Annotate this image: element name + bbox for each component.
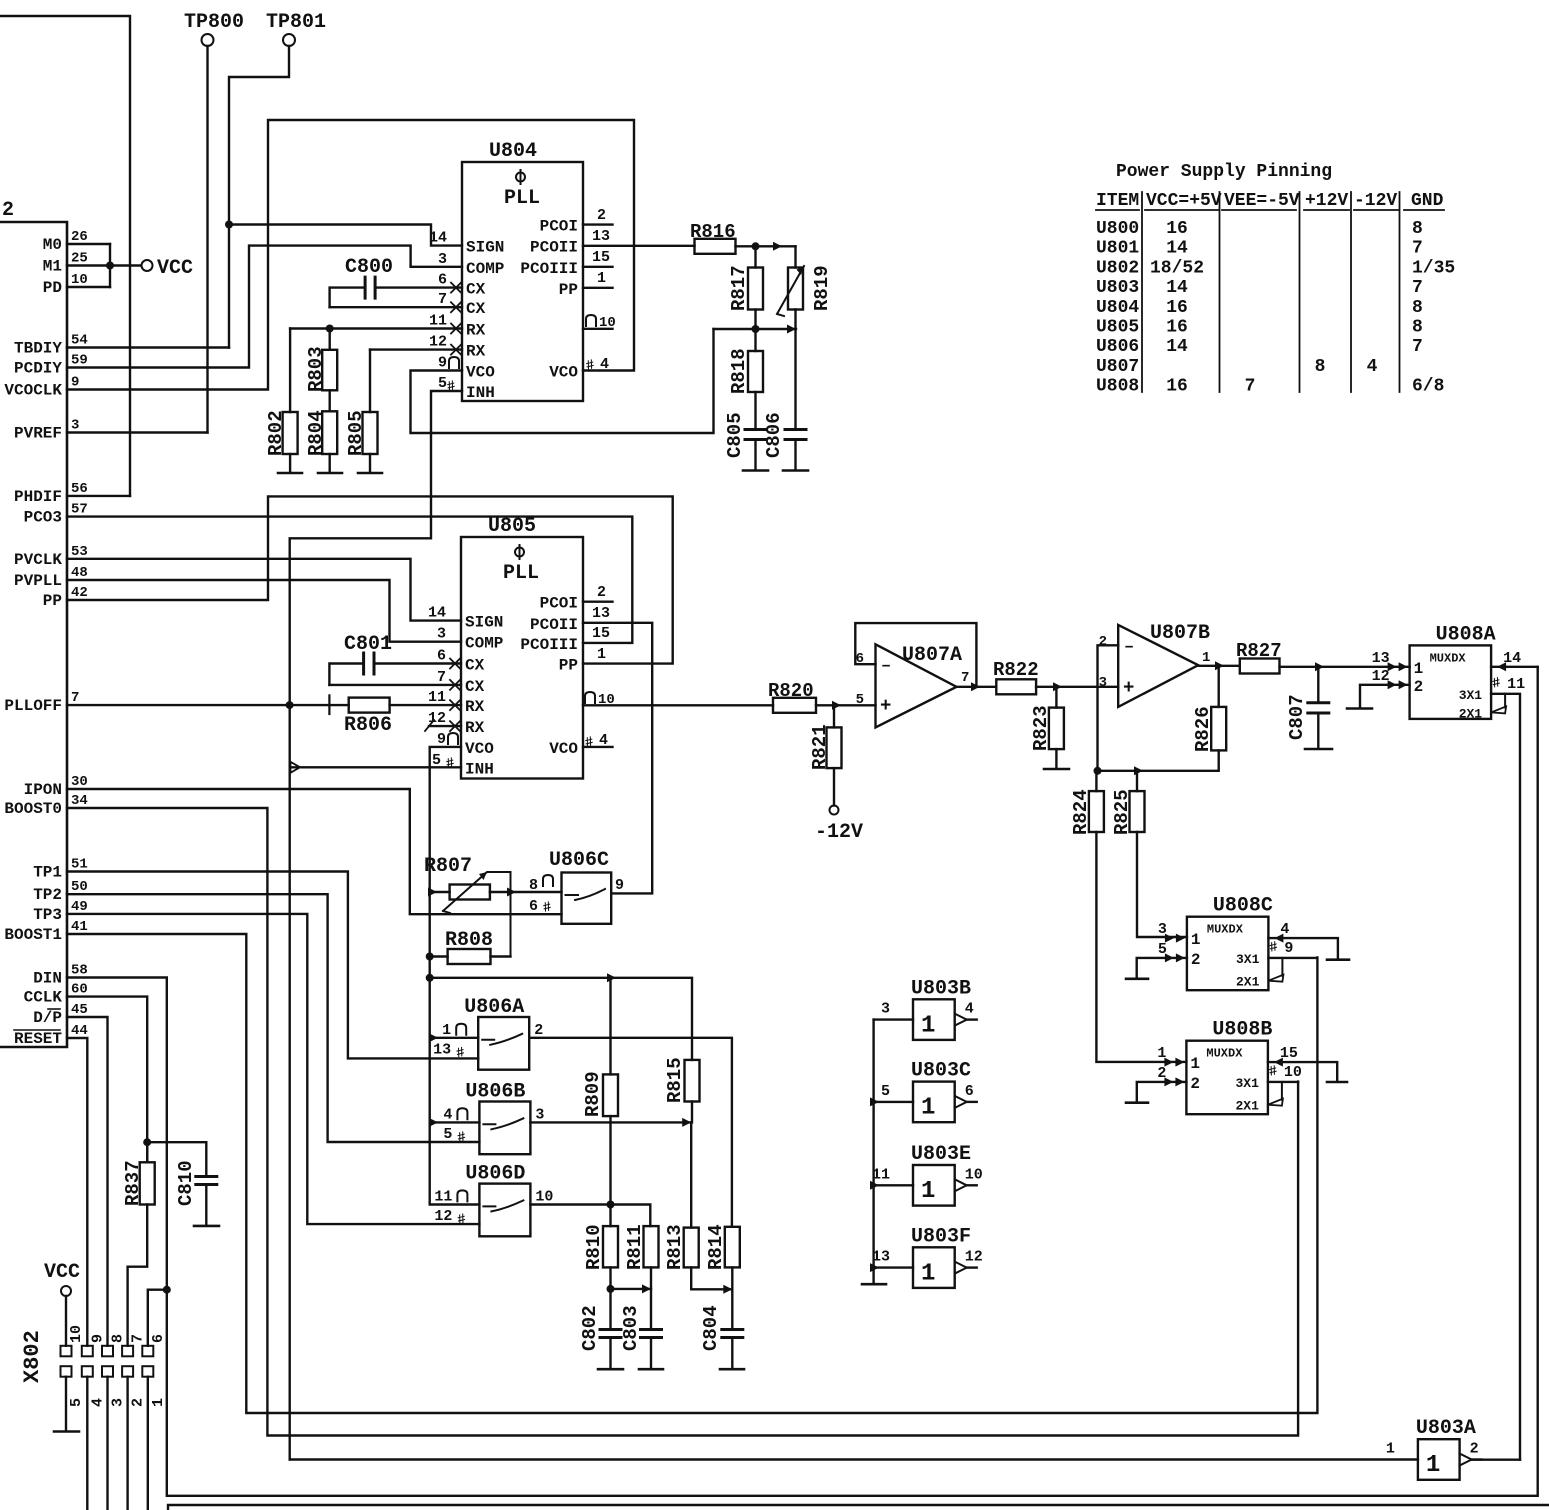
svg-text:1: 1 [597, 270, 606, 287]
wire PHDIF pin 56 [67, 495, 130, 497]
wire R806 to U805 RX11 [390, 704, 461, 706]
svg-text:9: 9 [438, 355, 447, 372]
svg-text:R822: R822 [993, 659, 1039, 681]
svg-text:C810: C810 [175, 1160, 197, 1206]
svg-text:C802: C802 [579, 1305, 601, 1351]
resistor R810 [603, 1226, 618, 1267]
wire U803 input bus [872, 1020, 874, 1283]
junction R811/C803 [642, 1284, 651, 1293]
junction U806B pin4/VCO net [429, 1118, 438, 1127]
wire U805 INH5 entry [290, 766, 461, 768]
ground R805 [358, 472, 382, 475]
svg-text:53: 53 [71, 544, 88, 560]
stub U804 PCOIII15 [583, 266, 613, 268]
svg-text:1: 1 [442, 1022, 451, 1039]
wire R824 top lead [1095, 771, 1097, 791]
U803F output arrow [955, 1262, 967, 1274]
ground R802 [278, 472, 302, 475]
svg-text:IPON: IPON [24, 781, 62, 799]
capacitor C805 [745, 430, 766, 440]
svg-text:59: 59 [71, 353, 88, 369]
svg-text:U803F: U803F [911, 1225, 971, 1248]
svg-text:4: 4 [965, 1001, 974, 1018]
svg-text:13: 13 [433, 1042, 451, 1059]
wire X802 pin1 down [147, 1377, 149, 1510]
wire R803 top lead [329, 329, 331, 350]
svg-text:PD: PD [43, 279, 62, 297]
svg-text:COMP: COMP [466, 260, 504, 278]
wire U806A pin2 to R814 [529, 1038, 732, 1227]
svg-text:1: 1 [1190, 1055, 1200, 1073]
wire R827 to U808A pin1 [1280, 666, 1410, 668]
X802 pin 6 square [142, 1346, 153, 1357]
svg-text:11: 11 [1507, 676, 1525, 693]
svg-text:#: # [445, 378, 457, 396]
U803A output arrow [1460, 1454, 1472, 1466]
svg-text:R820: R820 [768, 680, 814, 702]
wire U808B 3X1 out [1268, 1081, 1298, 1083]
wire R817 top lead [754, 246, 756, 267]
svg-text:7: 7 [437, 669, 446, 686]
wire R805 gnd lead [369, 454, 371, 473]
gate U803B box [913, 999, 955, 1040]
svg-text:M0: M0 [43, 236, 62, 254]
svg-text:PP: PP [559, 281, 578, 299]
svg-text:R819: R819 [811, 265, 833, 311]
wire U803F output stub [967, 1266, 977, 1268]
U805 pin x-mark [450, 721, 460, 731]
U808B pin1 input arrows [1175, 1058, 1184, 1067]
wire PCDIY to U804 COMP [67, 246, 462, 368]
U804 pin x-mark [451, 324, 461, 334]
U806A n-symbol [456, 1024, 466, 1035]
svg-text:1: 1 [1414, 660, 1424, 678]
svg-text:#: # [456, 1129, 468, 1147]
svg-text:U803E: U803E [911, 1143, 971, 1166]
wire R810 top lead [609, 1205, 611, 1227]
svg-text:49: 49 [71, 899, 88, 915]
wire R805 top lead [369, 350, 371, 412]
svg-text:1: 1 [921, 1178, 935, 1205]
wire R813 top lead [690, 1122, 692, 1227]
svg-text:45: 45 [71, 1002, 88, 1018]
svg-text:7: 7 [71, 690, 79, 706]
svg-text:U803B: U803B [911, 977, 971, 1000]
wire U806B pin3 to R815/R813 [530, 1121, 691, 1123]
svg-text:R810: R810 [583, 1224, 605, 1270]
junction R807 left [428, 888, 437, 897]
svg-text:CX: CX [465, 678, 485, 696]
X802 pin 7 square [122, 1346, 133, 1357]
resistor R826 [1211, 707, 1226, 751]
stub U804 pin10 [583, 328, 613, 330]
svg-text:+12V: +12V [1305, 191, 1348, 211]
svg-text:ITEM: ITEM [1096, 191, 1139, 211]
svg-text:2: 2 [1470, 1441, 1479, 1458]
svg-text:PLLOFF: PLLOFF [4, 697, 62, 715]
U808C right pin arrow [1274, 934, 1283, 943]
capacitor C806 [785, 430, 806, 440]
wire C806 gnd lead [794, 440, 796, 471]
wire PVCLK to U805 SIGN [67, 559, 461, 621]
svg-text:U808: U808 [1096, 377, 1139, 397]
resistor R813 [684, 1228, 699, 1268]
svg-text:5: 5 [881, 1083, 890, 1100]
junction R803/RX11 [326, 325, 334, 333]
wire C801 left bracket [329, 664, 363, 685]
resistor R809 [603, 1074, 618, 1116]
U806D n-symbol [457, 1190, 467, 1201]
svg-text:U803C: U803C [911, 1060, 971, 1083]
mux U808A box [1410, 645, 1492, 719]
wire U805 CX7 [329, 684, 461, 686]
wire VCC to X802 pin10 [65, 1296, 67, 1346]
resistor R827 [1240, 659, 1280, 674]
U803E output arrow [955, 1179, 967, 1191]
wire U803E output stub [967, 1184, 977, 1186]
wire VCOCLK to U804 VCO4 [67, 120, 634, 390]
svg-text:-12V: -12V [1354, 191, 1397, 211]
wire U804 CX6 [375, 286, 462, 288]
junction arrow R819 bottom [787, 325, 796, 334]
wire PD pin 10 [67, 286, 110, 288]
junction fb/R824 [1094, 767, 1102, 775]
svg-text:PLL: PLL [504, 187, 540, 210]
svg-text:14: 14 [1166, 278, 1188, 298]
wire C803 gnd lead [650, 1338, 652, 1369]
svg-text:5: 5 [68, 1398, 85, 1407]
wire R804 gnd lead [329, 454, 331, 473]
svg-text:R824: R824 [1070, 789, 1092, 835]
X802 pin 1 square [142, 1366, 153, 1377]
wire U804 PCOII13 to R816 [583, 245, 695, 247]
svg-text:7: 7 [438, 291, 447, 308]
svg-text:2: 2 [1190, 1075, 1200, 1093]
resistor R824 [1089, 791, 1104, 832]
junction node/VCO9 vert [426, 974, 434, 982]
svg-text:U804: U804 [1096, 298, 1139, 318]
node wire VCO9-net to R815 [430, 978, 692, 1060]
svg-text:7: 7 [1412, 239, 1423, 259]
svg-text:2: 2 [597, 584, 606, 601]
wire M0 pin 26 [67, 243, 110, 245]
svg-text:3: 3 [1099, 675, 1107, 691]
resistor R818 [748, 351, 763, 392]
resistor R823 [1049, 708, 1064, 750]
svg-text:PP: PP [559, 657, 578, 675]
wire M1 pin 25 [67, 264, 141, 266]
svg-text:R806: R806 [344, 714, 392, 737]
wire X802 pin5 gnd [65, 1377, 67, 1431]
R819 wiper arrow [777, 266, 804, 316]
svg-text:CX: CX [466, 300, 486, 318]
junction bus/U803C [870, 1097, 879, 1106]
svg-text:1: 1 [1191, 931, 1201, 949]
svg-text:3: 3 [437, 626, 446, 643]
svg-text:VCO: VCO [549, 364, 578, 382]
ground U808A pin2 [1347, 707, 1372, 710]
stub U804 PP1 [583, 287, 613, 289]
svg-text:9: 9 [437, 731, 446, 748]
svg-text:Power Supply Pinning: Power Supply Pinning [1116, 162, 1332, 182]
svg-text:TP800: TP800 [184, 11, 244, 34]
svg-text:3X1: 3X1 [1236, 952, 1260, 967]
svg-text:U808B: U808B [1212, 1019, 1272, 1042]
svg-text:R825: R825 [1111, 789, 1133, 835]
svg-text:R807: R807 [424, 855, 472, 878]
svg-text:RX: RX [465, 698, 485, 716]
svg-text:1: 1 [150, 1398, 167, 1407]
capacitor C810 [196, 1177, 217, 1185]
resistor R817 [748, 268, 763, 310]
svg-text:–: – [881, 657, 891, 676]
junction bus/U803F [870, 1263, 879, 1272]
svg-text:VCC: VCC [157, 257, 193, 280]
svg-text:RX: RX [466, 343, 486, 361]
svg-text:8: 8 [1315, 357, 1326, 377]
junction pin10/R809/R810 [607, 1201, 615, 1209]
svg-text:C807: C807 [1286, 694, 1308, 740]
svg-text:COMP: COMP [465, 635, 503, 653]
svg-text:3X1: 3X1 [1235, 1076, 1259, 1091]
svg-text:#: # [455, 1045, 467, 1063]
wire U808A 3X1 out [1491, 694, 1520, 1460]
svg-text:INH: INH [466, 384, 495, 402]
gate U803A box [1418, 1439, 1460, 1480]
wire R814 bottom lead [731, 1267, 733, 1329]
U805 pin x-mark [450, 659, 460, 669]
svg-text:6: 6 [438, 272, 447, 289]
junction C807 [1315, 662, 1324, 671]
svg-text:R805: R805 [345, 410, 367, 456]
resistor R821 [827, 727, 842, 768]
svg-text:PVPLL: PVPLL [14, 572, 62, 590]
svg-text:PCDIY: PCDIY [14, 360, 62, 378]
ground C806 [783, 469, 808, 472]
wire TP2 to U806B pin5 [67, 894, 479, 1142]
svg-text:U805: U805 [488, 515, 536, 538]
svg-text:8: 8 [110, 1334, 127, 1343]
U804 pin x-mark [451, 283, 461, 293]
U805 pin x-mark [450, 680, 460, 690]
junction R816/R817 [752, 242, 760, 250]
svg-text:10: 10 [965, 1166, 983, 1183]
stub U805 PCOI2 [583, 601, 613, 603]
svg-text:U806B: U806B [465, 1081, 525, 1104]
wire U803B input [874, 1018, 913, 1020]
svg-text:CX: CX [466, 281, 486, 299]
svg-text:10: 10 [68, 1325, 85, 1343]
svg-text:R811: R811 [624, 1224, 646, 1270]
ground C804 [720, 1368, 744, 1371]
wire R811 bottom lead [650, 1267, 652, 1329]
resistor R820 [773, 698, 816, 713]
X802 pin 9 square [82, 1346, 93, 1357]
wire DIN down [67, 667, 1538, 1496]
wire top-left to PHDIF [0, 16, 130, 496]
ground C803 [639, 1368, 663, 1371]
wire TP801 down-jog [229, 46, 289, 348]
svg-text:7: 7 [1412, 337, 1423, 357]
ground C802 [598, 1368, 623, 1371]
svg-text:6: 6 [437, 648, 446, 665]
svg-text:R804: R804 [305, 410, 327, 456]
wire R826 top lead [1217, 665, 1219, 707]
wire C810 gnd lead [205, 1185, 207, 1226]
svg-text:3: 3 [110, 1398, 127, 1407]
junction pin3/R815/R813 [682, 1118, 691, 1127]
wire R802 gnd lead [289, 454, 291, 473]
R806 left bar [328, 695, 330, 714]
wire R809 bottom lead [609, 1116, 611, 1204]
wire CCLK down to R837 [67, 997, 147, 1163]
VCC terminal circle [142, 260, 153, 271]
stub U805 VCO4 [583, 746, 613, 748]
svg-text:X802: X802 [20, 1330, 45, 1383]
wire PP to U805 PP1 [67, 496, 673, 663]
svg-text:9: 9 [615, 877, 624, 894]
svg-text:6: 6 [529, 898, 538, 915]
junction PLLOFF/INH net [286, 701, 294, 709]
svg-text:6: 6 [150, 1334, 167, 1343]
svg-text:11: 11 [429, 313, 447, 330]
capacitor C801 [364, 653, 374, 674]
wire R822 to U807B plus [1036, 686, 1118, 688]
svg-text:6: 6 [965, 1083, 974, 1100]
svg-text:U807: U807 [1096, 357, 1139, 377]
svg-text:VCO: VCO [466, 364, 495, 382]
U806C switch symbol [566, 889, 606, 900]
wire U803C input [874, 1101, 913, 1103]
svg-text:2: 2 [2, 199, 14, 222]
svg-text:VCO: VCO [549, 740, 578, 758]
U805 RX12 nc slash [425, 720, 434, 731]
U808A right pin arrow [1497, 662, 1506, 671]
U804 phi symbol [516, 173, 525, 182]
svg-text:R809: R809 [582, 1071, 604, 1117]
svg-text:1: 1 [1202, 650, 1210, 666]
svg-text:PCOI: PCOI [540, 595, 578, 613]
X802 pin 5 square [61, 1366, 72, 1377]
wire R825 to U808C pin1 [1137, 832, 1187, 937]
svg-text:U807B: U807B [1150, 622, 1210, 645]
svg-text:PCOI: PCOI [540, 218, 578, 236]
svg-text:12: 12 [1372, 668, 1390, 685]
resistor R822 [996, 679, 1036, 694]
wire R803-R804 lead [329, 390, 331, 411]
svg-text:30: 30 [71, 774, 88, 790]
svg-text:U800: U800 [1096, 219, 1139, 239]
ground C807 [1305, 748, 1332, 751]
svg-text:U806D: U806D [465, 1163, 525, 1186]
svg-text:R814: R814 [705, 1224, 727, 1270]
svg-text:R817: R817 [728, 265, 750, 311]
U805 pin x-mark [450, 700, 460, 710]
wire U807B out to R827 [1198, 665, 1240, 667]
svg-text:16: 16 [1166, 219, 1188, 239]
wire R807 left lead [430, 891, 450, 893]
wire BOOST0 down [67, 808, 1298, 1436]
U808A pin2 input arrows [1399, 680, 1408, 689]
svg-text:+: + [880, 695, 891, 717]
svg-text:CX: CX [465, 657, 485, 675]
U806D switch symbol [483, 1200, 523, 1211]
wire U808B pin15 gnd [1268, 1062, 1337, 1081]
svg-text:56: 56 [71, 481, 88, 497]
svg-text:11: 11 [428, 689, 446, 706]
svg-text:U803A: U803A [1416, 1417, 1476, 1440]
wire C805 gnd lead [754, 440, 756, 471]
capacitor C804 [722, 1330, 743, 1338]
svg-text:14: 14 [428, 605, 446, 622]
junction bus/U803E [870, 1181, 879, 1190]
svg-text:2X1: 2X1 [1235, 1099, 1259, 1114]
U804 pin x-mark [451, 345, 461, 355]
svg-text:#: # [583, 734, 595, 752]
junction R821 [832, 701, 841, 710]
svg-text:41: 41 [71, 919, 88, 935]
svg-text:U805: U805 [1096, 318, 1139, 338]
wire R807 right to U806C pin8 [490, 891, 562, 893]
mux U808B box [1186, 1041, 1268, 1115]
table header underline [1096, 209, 1444, 211]
X802 pin 3 square [102, 1366, 113, 1377]
resistor R816 [695, 239, 736, 254]
svg-text:4: 4 [1367, 357, 1378, 377]
junction node/R809 [607, 973, 616, 982]
ground U808B pin2 [1126, 1101, 1148, 1104]
junction fb/R825 [1134, 766, 1143, 775]
wire R802 top lead [289, 329, 291, 413]
wire R821 to -12V [833, 768, 835, 805]
svg-text:12: 12 [429, 334, 447, 351]
wire C807 top lead [1317, 667, 1319, 703]
U803B output arrow [955, 1014, 967, 1026]
svg-text:1: 1 [1426, 1452, 1440, 1479]
svg-text:25: 25 [71, 251, 88, 267]
ground C805 [743, 469, 768, 472]
U805 phi symbol [515, 548, 524, 557]
node bar R817/R818/R819 [714, 328, 797, 330]
junction R826/out [1215, 661, 1224, 670]
junction R808 left [426, 953, 434, 961]
wire TP1 to U806A pin13 [67, 872, 478, 1059]
IC U802 (partial, left edge off-page) [0, 222, 67, 1047]
capacitor C802 [600, 1330, 621, 1338]
wire U806D pin10 to R809/R810/R811 [530, 1205, 650, 1227]
svg-text:PHDIF: PHDIF [14, 488, 62, 506]
wire U807B pin2 to fb node [1098, 645, 1119, 771]
U808B right pin arrow [1274, 1058, 1283, 1067]
wire R810 bottom lead [609, 1267, 611, 1329]
svg-text:13: 13 [592, 605, 610, 622]
svg-text:U803: U803 [1096, 278, 1139, 298]
svg-text:2X1: 2X1 [1459, 706, 1483, 721]
wire R815 bottom lead [691, 1102, 693, 1123]
wire U808C pin2 gnd [1137, 958, 1187, 978]
resistor R815 [685, 1060, 700, 1102]
wire R837 to X802 pin7 [128, 1205, 148, 1346]
svg-text:R803: R803 [305, 346, 327, 392]
svg-text:C805: C805 [724, 412, 746, 458]
svg-text:15: 15 [592, 625, 610, 642]
svg-text:14: 14 [1166, 337, 1188, 357]
svg-text:1: 1 [921, 1012, 935, 1039]
svg-text:10: 10 [535, 1188, 553, 1205]
wire U806B pin4 [430, 1121, 480, 1123]
U803C output arrow [955, 1096, 967, 1108]
wire X802 pin2 down [126, 1377, 128, 1510]
